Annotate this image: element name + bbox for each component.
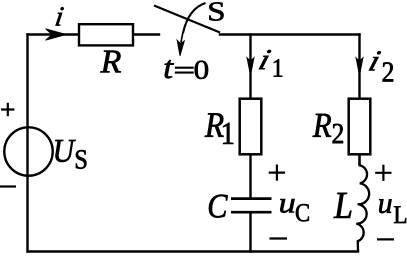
label subscript 1 of i1 <box>274 59 282 76</box>
switch arrow shaft <box>181 33 183 43</box>
resistor R <box>79 24 133 45</box>
label R of R2 <box>313 114 331 137</box>
arrow i1 <box>247 58 254 76</box>
wire branch 2 stub R2 to L <box>358 155 360 165</box>
label L <box>334 193 352 218</box>
label subscript S of US <box>76 150 86 169</box>
inductor L coil <box>356 155 369 252</box>
LABELS-END <box>0 103 394 240</box>
wire top right segment <box>220 33 360 35</box>
label i of i2 <box>369 51 381 70</box>
label t of t=0 <box>165 60 174 78</box>
switch arrowhead <box>177 40 184 56</box>
label i of i1 <box>259 50 271 69</box>
label subscript 2 of i2 <box>383 62 393 81</box>
label U of US <box>55 140 75 162</box>
wire branch 2 upper <box>358 35 360 99</box>
wire top left segment <box>28 33 80 35</box>
minus sign uL <box>377 238 394 240</box>
wire left vertical <box>26 35 28 252</box>
resistor R1 <box>240 99 262 155</box>
capacitor C plates <box>231 199 272 213</box>
label subscript 2 of R2 <box>333 124 343 143</box>
plus sign uL <box>375 172 391 174</box>
wire branch 1 upper <box>249 35 251 99</box>
wire branch 1 middle <box>249 155 251 198</box>
arrow i <box>46 29 67 41</box>
label subscript 1 of R1 <box>223 123 233 144</box>
resistor R2 <box>349 99 371 155</box>
label = of t=0 <box>175 67 194 69</box>
plus sign US <box>1 108 15 110</box>
plus sign uC <box>269 172 285 174</box>
wire bottom <box>28 250 359 252</box>
arrow i2 <box>356 58 363 76</box>
minus sign US <box>0 185 16 187</box>
switch S actuation arc <box>183 3 206 33</box>
switch S blade <box>154 6 220 33</box>
label subscript C of uC <box>296 204 309 221</box>
minus sign uC <box>270 237 288 239</box>
voltage source US circle <box>4 127 52 175</box>
wire branch 1 lower <box>249 214 251 252</box>
label R <box>100 51 120 73</box>
label 0 of t=0 <box>195 61 208 79</box>
label R of R1 <box>205 113 224 136</box>
label u of uL <box>379 199 391 213</box>
label S <box>209 2 223 20</box>
label u of uC <box>280 199 294 213</box>
wire resistor R to switch <box>133 33 159 35</box>
label C <box>209 195 228 218</box>
label i <box>56 7 64 25</box>
label subscript L of uL <box>394 206 406 223</box>
